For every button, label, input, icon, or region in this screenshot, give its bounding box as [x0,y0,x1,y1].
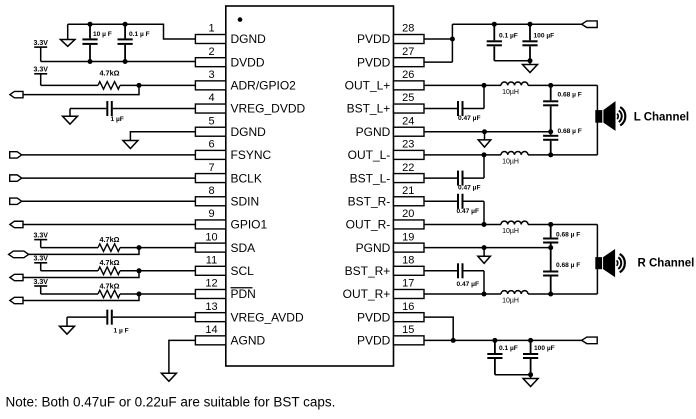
svg-text:0.1 µF: 0.1 µF [499,32,518,39]
connector BCLK input [10,175,22,181]
svg-text:3.3V: 3.3V [33,256,48,263]
resistor 4.7k PDN pull-up [98,281,120,297]
svg-text:22: 22 [402,162,414,174]
pin 9 GPIO1 [195,208,267,232]
svg-text:PVDD: PVDD [357,310,391,324]
pin 17 OUT_R+ [343,278,424,302]
junction [528,58,533,63]
svg-text:28: 28 [402,23,414,35]
svg-text:Note: Both 0.47uF or 0.22uF ar: Note: Both 0.47uF or 0.22uF are suitable… [6,394,336,409]
svg-text:ADR/GPIO2: ADR/GPIO2 [231,79,297,93]
supply 3.3V SDA [33,232,48,247]
resistor 4.7k SCL pull-up [98,258,120,274]
wire R speaker loop [596,224,598,294]
junction [482,152,487,157]
pin 25 BST_L+ [347,92,424,116]
wire BST_R+ to OUT_R+ node [483,271,485,294]
junction [548,245,553,250]
connector SDIN input [10,198,22,204]
junction [492,338,497,343]
capacitor 0.1uF PVDD bottom [487,340,518,374]
resistor 4.7k SDA pull-up [98,235,120,251]
wire pin17 OUT_R+ [424,293,501,295]
pin 8 SDIN [195,185,259,209]
junction [88,59,93,64]
svg-text:24: 24 [402,115,414,127]
pin 7 BCLK [195,162,261,186]
wire BST_R- to OUT_R- node [483,201,485,224]
svg-text:3: 3 [208,69,214,81]
pin 19 PGND [356,231,424,255]
pin 22 BST_L- [350,162,424,186]
junction [451,338,456,343]
wire resistor to pin SDA [120,247,195,249]
svg-text:4.7kΩ: 4.7kΩ [99,69,119,78]
connector PVDD supply bottom [582,337,598,344]
svg-text:PVDD: PVDD [357,334,391,348]
svg-text:4.7kΩ: 4.7kΩ [99,281,119,290]
svg-text:4: 4 [208,92,214,104]
pin 4 VREG_DVDD [195,92,305,116]
svg-text:PVDD: PVDD [357,55,391,69]
inductor 10uH OUT_R+ [501,291,528,305]
label R Channel [638,258,695,270]
wire L speaker loop [596,85,598,155]
connector SDA bidirectional [9,251,29,258]
wire resistor to pin PDN [120,293,195,295]
svg-text:BST_R+: BST_R+ [345,264,391,278]
capacitor 0.47uF BST_R- [457,194,485,215]
capacitor 0.68uF R upper [543,224,580,247]
pin 21 BST_R- [348,185,424,209]
svg-text:OUT_R-: OUT_R- [346,218,391,232]
svg-text:0.47 µF: 0.47 µF [457,208,480,215]
pin 3 ADR/GPIO2 [195,69,296,93]
pin 1 DGND [195,23,266,47]
wire 3.3V to resistor SCL [41,270,98,272]
capacitor 0.47uF BST_L+ [457,101,484,122]
svg-text:10µH: 10µH [502,89,519,96]
pin 5 DGND [195,115,266,139]
capacitor 1uF VREG_DVDD [70,101,195,123]
wire pin14 AGND [169,340,196,373]
supply 3.3V PDN [33,279,48,294]
svg-text:1 µF: 1 µF [111,116,124,123]
pin 14 AGND [195,324,265,348]
ground PGND R [478,248,491,264]
svg-text:0.47 µF: 0.47 µF [458,184,481,191]
svg-text:100 µF: 100 µF [534,32,555,39]
junction [123,22,128,27]
wire SCL connector to junction [23,271,139,278]
junction [548,129,553,134]
resistor 4.7k ADR pull-up [98,69,120,90]
capacitor 100uF PVDD top [522,24,554,61]
svg-text:10µH: 10µH [502,228,519,235]
pin 23 OUT_L- [348,139,424,163]
junction [450,37,455,42]
svg-text:DGND: DGND [231,125,267,139]
svg-text:16: 16 [402,301,414,313]
svg-text:0.68 µ F: 0.68 µ F [558,128,582,135]
svg-text:11: 11 [206,255,217,267]
label L Channel [634,112,689,124]
junction [137,291,142,296]
junction [548,291,553,296]
pin 11 SCL [195,255,254,279]
svg-text:20: 20 [402,208,414,220]
supply 3.3V DVDD [33,40,48,62]
ground decoupling top-left [60,24,74,46]
wire pin25 BST_L+ lead [424,108,457,110]
svg-text:100 µF: 100 µF [534,345,555,352]
svg-text:14: 14 [205,324,217,336]
junction [482,129,487,134]
svg-text:SCL: SCL [231,264,255,278]
svg-text:BST_L-: BST_L- [350,171,391,185]
svg-text:DVDD: DVDD [231,55,265,69]
svg-text:7: 7 [208,162,214,174]
wire ADR connector to junction [23,85,139,94]
svg-text:0.47 µF: 0.47 µF [458,115,481,122]
capacitor 0.68uF L lower [543,128,582,155]
ground pin5 DGND [123,141,138,149]
svg-text:3.3V: 3.3V [33,232,48,239]
capacitor 1uF VREG_AVDD [67,310,195,335]
pin 20 OUT_R- [346,208,424,232]
pin 26 OUT_L+ [345,69,424,93]
connector ADR/GPIO2 input [10,91,23,97]
svg-text:5: 5 [208,115,214,127]
svg-text:3.3V: 3.3V [33,279,48,286]
svg-text:SDIN: SDIN [231,194,260,208]
pin 24 PGND [356,115,424,139]
pin 12 PDN [195,278,255,302]
svg-text:OUT_L+: OUT_L+ [345,79,391,93]
wire BST_L- to OUT_L- node [483,155,485,178]
ground VREG_DVDD cap [63,109,78,125]
wire pin16 PVDD [424,317,453,340]
wire OUT_R- to speaker corner [528,223,597,225]
pin 16 PVDD [357,301,424,325]
connector PVDD supply top [582,21,598,28]
junction [528,22,533,27]
capacitor 0.1uF DVDD [118,24,150,61]
speaker R channel [595,250,625,276]
wire SDA connector to junction [29,248,139,255]
svg-text:VREG_DVDD: VREG_DVDD [231,102,306,116]
junction [528,338,533,343]
wire resistor to pin3 [120,84,195,86]
svg-text:15: 15 [402,324,414,336]
svg-text:23: 23 [402,139,414,151]
junction [482,245,487,250]
svg-text:10 µ F: 10 µ F [93,31,112,38]
wire pin28 PVDD [424,38,452,40]
wire pin15 PVDD rail [424,339,582,341]
connector GPIO1 [10,221,23,227]
supply 3.3V ADR [33,67,48,86]
svg-text:10: 10 [205,231,217,243]
op IC U1 TAS5720 body [226,6,394,366]
capacitor 0.68uF R lower [543,248,580,294]
svg-text:10µH: 10µH [502,158,519,165]
wire BST_L+ to OUT_L+ node [483,85,485,108]
svg-text:OUT_L-: OUT_L- [348,148,391,162]
svg-text:AGND: AGND [231,334,266,348]
wire pin27 PVDD [424,61,452,63]
capacitor 0.68uF L upper [543,85,582,131]
wire OUT_L+ to speaker corner [528,84,597,86]
svg-text:BST_L+: BST_L+ [347,102,391,116]
wire pin20 OUT_R- [424,223,501,225]
svg-text:FSYNC: FSYNC [231,148,272,162]
svg-text:26: 26 [402,69,414,81]
svg-text:9: 9 [208,208,214,220]
ground PGND L [478,132,491,147]
svg-text:PGND: PGND [356,241,391,255]
wire pin1 DGND to decoupling top rail [68,24,196,39]
wire 3.3V to resistor ADR [41,84,98,86]
wire pin23 OUT_L- [424,154,501,156]
capacitor 0.1uF PVDD top [487,24,518,61]
svg-text:0.47 µF: 0.47 µF [457,281,480,288]
connector SCL [10,274,23,280]
ground AGND [161,373,176,381]
junction [482,291,487,296]
svg-text:BCLK: BCLK [231,171,262,185]
speaker L channel [595,102,625,130]
svg-text:PVDD: PVDD [357,32,391,46]
svg-text:13: 13 [205,301,217,313]
svg-text:0.68 µ F: 0.68 µ F [556,262,580,269]
svg-text:4.7kΩ: 4.7kΩ [99,235,119,244]
pin 13 VREG_AVDD [195,301,304,325]
junction [123,59,128,64]
wire pin22 BST_L- lead [424,177,457,179]
junction [548,222,553,227]
pin 15 PVDD [357,324,424,348]
pin 2 DVDD [195,46,264,69]
ground PVDD top caps [523,61,538,73]
svg-text:0.68 µ F: 0.68 µ F [556,232,580,239]
svg-text:18: 18 [402,255,414,267]
svg-text:L Channel: L Channel [634,112,689,124]
pin 18 BST_R+ [345,255,424,279]
ground PVDD bottom caps [523,375,538,387]
junction [528,372,533,377]
svg-text:3.3V: 3.3V [33,40,48,47]
svg-text:VREG_AVDD: VREG_AVDD [231,310,304,324]
svg-text:PDN: PDN [231,287,256,301]
inductor 10uH OUT_L- [501,152,528,166]
svg-text:3.3V: 3.3V [33,67,48,74]
svg-text:DGND: DGND [231,32,267,46]
wire cap bottoms tie top [494,60,530,62]
pin 28 PVDD [357,23,424,47]
svg-text:19: 19 [402,231,414,243]
wire cap bottoms tie bottom [495,374,531,376]
svg-text:12: 12 [205,278,217,290]
svg-text:PGND: PGND [356,125,391,139]
pin 6 FSYNC [195,139,271,163]
svg-text:1: 1 [208,23,214,35]
junction [482,222,487,227]
wire PDN connector to junction [23,294,139,301]
svg-text:8: 8 [208,185,214,197]
svg-text:0.1 µF: 0.1 µF [499,345,518,352]
inductor 10uH OUT_R- [501,221,528,235]
svg-text:SDA: SDA [231,241,256,255]
wire pin19 PGND [424,247,551,249]
wire PVDD top rail [452,23,581,25]
wire BCLK [22,177,196,179]
capacitor 10uF DVDD [82,24,111,61]
wire 3.3V to resistor PDN [41,293,98,295]
junction [88,22,93,27]
capacitor 0.47uF BST_R+ [457,263,485,288]
pin 1 indicator dot [238,17,243,22]
junction [548,83,553,88]
note text [6,394,336,409]
svg-text:2: 2 [208,46,214,58]
wire pin18 BST_R+ lead [424,270,457,272]
ground VREG_AVDD cap [60,317,75,334]
junction [492,22,497,27]
capacitor 100uF PVDD bottom [523,340,555,374]
junction [137,245,142,250]
wire pin26 OUT_L+ [424,84,501,86]
pin 10 SDA [195,231,255,255]
connector FSYNC input [10,152,22,158]
capacitor 0.47uF BST_L- [457,171,484,192]
svg-text:R Channel: R Channel [638,258,695,270]
wire 3.3V to resistor SDA [41,247,98,249]
junction [548,152,553,157]
svg-text:BST_R-: BST_R- [348,194,391,208]
wire 3.3V to pin2 DVDD [41,61,196,63]
svg-text:4.7kΩ: 4.7kΩ [99,258,119,267]
svg-text:6: 6 [208,139,214,151]
wire FSYNC [22,154,196,156]
svg-text:GPIO1: GPIO1 [231,218,268,232]
supply 3.3V SCL [33,256,48,271]
svg-text:1 µ F: 1 µ F [114,327,129,334]
svg-text:0.68 µ F: 0.68 µ F [558,92,582,99]
junction [137,268,142,273]
svg-text:0.1 µ F: 0.1 µ F [129,31,150,38]
svg-text:OUT_R+: OUT_R+ [343,287,391,301]
wire SDIN [22,200,196,202]
junction [482,83,487,88]
wire GPIO1 [23,223,195,225]
connector PDN [10,297,23,303]
inductor 10uH OUT_L+ [501,82,528,96]
svg-text:25: 25 [402,92,414,104]
svg-text:27: 27 [402,46,414,58]
wire pin21 BST_R- lead [424,200,457,202]
wire pin24 PGND [424,131,551,133]
wire resistor to pin SCL [120,270,195,272]
wire pin5 DGND [130,132,195,141]
svg-text:10µH: 10µH [502,297,519,304]
svg-text:17: 17 [402,278,414,290]
pin 27 PVDD [357,46,424,69]
wire PVDD vertical tie [451,24,453,62]
junction [137,83,142,88]
wire OUT_L- to speaker corner [528,154,597,156]
svg-text:21: 21 [402,185,414,197]
wire OUT_R+ to speaker corner [528,293,597,295]
